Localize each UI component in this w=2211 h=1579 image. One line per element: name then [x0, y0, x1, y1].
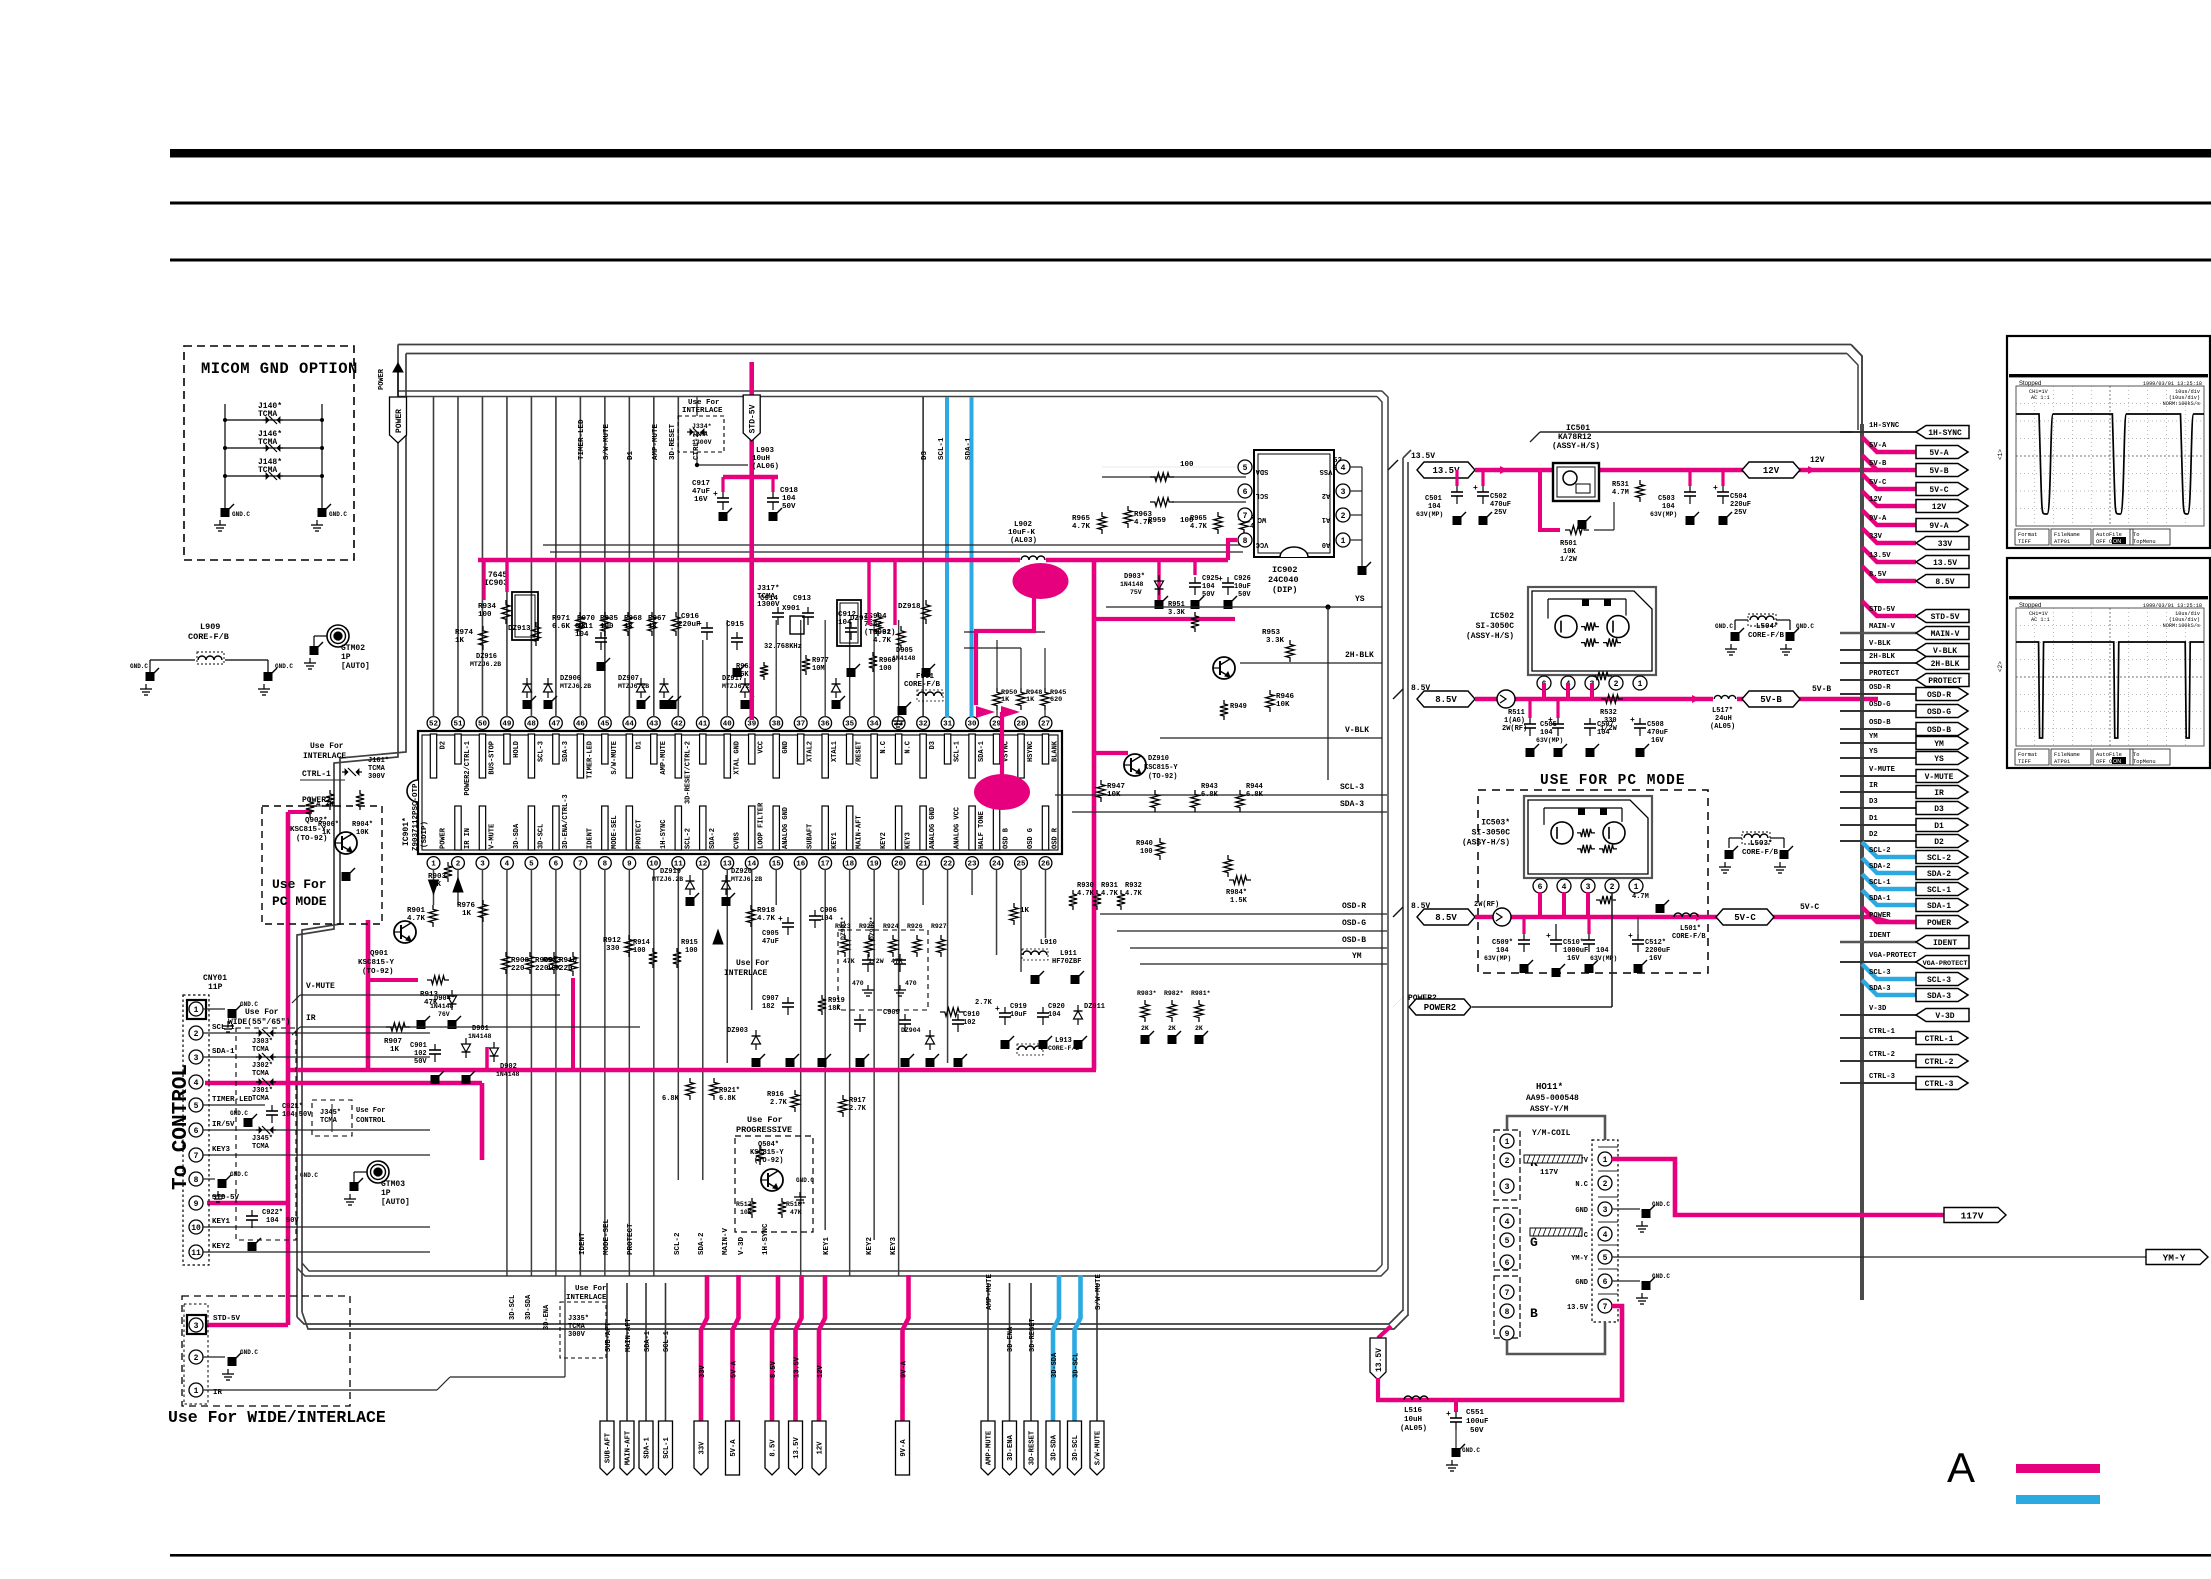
svg-text:PROGRESSIVE: PROGRESSIVE: [736, 1125, 792, 1135]
svg-text:L517*: L517*: [1712, 707, 1733, 715]
svg-text:TopMenu: TopMenu: [2133, 539, 2156, 545]
svg-text:CTRL-1: CTRL-1: [1925, 1035, 1954, 1044]
svg-text:TCMA: TCMA: [258, 410, 277, 419]
svg-text:TIMER-LED: TIMER-LED: [586, 741, 594, 779]
svg-text:C926: C926: [1234, 575, 1251, 583]
svg-text:PROTECT: PROTECT: [635, 820, 643, 849]
svg-text:YS: YS: [1934, 755, 1944, 764]
svg-text:YS: YS: [1355, 595, 1365, 604]
svg-text:2H-BLK: 2H-BLK: [1931, 660, 1960, 669]
svg-text:C901: C901: [410, 1042, 427, 1050]
svg-text:100: 100: [478, 611, 492, 619]
svg-text:GND.C: GND.C: [230, 1110, 248, 1117]
svg-text:R949: R949: [1230, 703, 1247, 711]
svg-text:WIDE(55"/65"): WIDE(55"/65"): [228, 1018, 290, 1027]
svg-text:R940: R940: [1136, 840, 1153, 848]
svg-text:C510*: C510*: [1563, 939, 1584, 947]
svg-text:<2>: <2>: [1997, 661, 2004, 672]
svg-text:KSC815-Y: KSC815-Y: [358, 959, 395, 967]
svg-text:KEY1: KEY1: [831, 832, 839, 849]
svg-text:AC 1:1: AC 1:1: [2031, 617, 2050, 623]
svg-text:GND.C: GND.C: [240, 1001, 258, 1008]
svg-text:5: 5: [1603, 1254, 1608, 1263]
svg-text:R944: R944: [1246, 783, 1263, 791]
svg-text:1P: 1P: [381, 1189, 391, 1198]
svg-text:(ASSY-H/S): (ASSY-H/S): [1462, 839, 1510, 848]
svg-text:R982*: R982*: [1164, 990, 1184, 997]
svg-text:50V: 50V: [1470, 1427, 1484, 1435]
svg-text:104: 104: [1596, 947, 1609, 955]
svg-text:6.8K: 6.8K: [1201, 791, 1219, 799]
svg-text:Format: Format: [2018, 532, 2037, 538]
svg-text:4: 4: [1562, 883, 1567, 892]
svg-text:26: 26: [1041, 861, 1051, 869]
svg-text:R910: R910: [559, 957, 578, 965]
svg-text:10uF: 10uF: [1010, 1011, 1027, 1019]
svg-text:6: 6: [554, 861, 559, 869]
svg-text:50V: 50V: [1202, 591, 1215, 599]
svg-text:R974: R974: [455, 629, 474, 637]
svg-text:SCL-3: SCL-3: [1927, 976, 1951, 985]
svg-text:5V-B: 5V-B: [1812, 685, 1831, 694]
svg-text:24C040: 24C040: [1268, 575, 1299, 585]
svg-text:R901: R901: [407, 907, 426, 915]
svg-text:SCL-3: SCL-3: [537, 741, 545, 762]
svg-text:47: 47: [551, 721, 560, 729]
svg-text:CONTROL: CONTROL: [356, 1117, 385, 1125]
svg-text:104: 104: [1597, 729, 1610, 737]
svg-text:ANALOG GND: ANALOG GND: [929, 807, 937, 849]
svg-text:4.7K: 4.7K: [1101, 890, 1119, 898]
svg-text:1N4148: 1N4148: [1120, 581, 1144, 588]
svg-text:117V: 117V: [1540, 1169, 1559, 1177]
svg-text:32: 32: [919, 721, 929, 729]
svg-text:R968: R968: [624, 615, 643, 623]
svg-text:25V: 25V: [1734, 509, 1747, 517]
svg-text:(AL05): (AL05): [1400, 1425, 1427, 1433]
svg-text:7642: 7642: [864, 621, 883, 629]
svg-text:DZ906: DZ906: [560, 675, 581, 683]
svg-text:6.8K: 6.8K: [1246, 791, 1264, 799]
svg-text:R501: R501: [1560, 540, 1577, 548]
svg-text:<1>: <1>: [1997, 449, 2004, 460]
svg-text:220uF: 220uF: [1730, 501, 1751, 509]
svg-text:1K: 1K: [462, 910, 472, 918]
svg-text:IR: IR: [1869, 782, 1878, 790]
svg-text:104: 104: [575, 631, 589, 639]
svg-text:IDENT: IDENT: [586, 828, 594, 849]
svg-text:KEY3: KEY3: [890, 1236, 898, 1255]
svg-text:L909: L909: [200, 622, 220, 632]
svg-text:SDA-1: SDA-1: [978, 741, 986, 762]
svg-text:3D-SCL: 3D-SCL: [1073, 1353, 1081, 1378]
svg-text:Use For: Use For: [356, 1107, 385, 1115]
svg-text:3D-ENA: 3D-ENA: [1007, 1326, 1015, 1352]
svg-text:7: 7: [1603, 1303, 1608, 1312]
svg-text:ATP01: ATP01: [2054, 759, 2070, 765]
svg-text:L501*: L501*: [1680, 925, 1701, 933]
svg-text:31: 31: [943, 721, 953, 729]
svg-text:12V: 12V: [1932, 503, 1947, 512]
svg-text:J317*: J317*: [757, 585, 780, 593]
svg-text:75V: 75V: [1130, 589, 1142, 596]
svg-text:8.5V: 8.5V: [1935, 578, 1954, 587]
svg-text:47uF: 47uF: [762, 938, 779, 946]
svg-text:SI-3050C: SI-3050C: [1476, 622, 1515, 631]
svg-text:3: 3: [1505, 1183, 1510, 1192]
svg-text:SUBAFT: SUBAFT: [807, 824, 815, 849]
svg-text:1K: 1K: [648, 623, 658, 631]
svg-text:INTERLACE: INTERLACE: [682, 407, 723, 415]
svg-text:Use For: Use For: [688, 399, 720, 407]
svg-text:4.7K: 4.7K: [1134, 519, 1153, 527]
svg-text:Stopped: Stopped: [2019, 381, 2041, 387]
svg-text:100: 100: [1140, 848, 1153, 856]
svg-text:43: 43: [649, 721, 659, 729]
svg-text:8: 8: [1505, 1308, 1510, 1317]
svg-text:4: 4: [194, 1079, 199, 1088]
svg-text:HSYNC: HSYNC: [1027, 741, 1035, 762]
svg-text:R965: R965: [1190, 515, 1207, 523]
svg-text:25: 25: [1017, 861, 1027, 869]
svg-text:25V: 25V: [1494, 509, 1507, 517]
svg-text:L902: L902: [1014, 521, 1033, 529]
svg-text:L911: L911: [1060, 950, 1077, 958]
svg-text:STD-5V: STD-5V: [212, 1194, 240, 1202]
svg-text:3: 3: [194, 1054, 199, 1063]
svg-text:POWER: POWER: [395, 409, 404, 433]
svg-text:R915: R915: [681, 939, 698, 947]
svg-text:C917: C917: [692, 480, 710, 488]
svg-text:DZ903: DZ903: [727, 1027, 748, 1035]
svg-text:OSD-R: OSD-R: [1927, 691, 1951, 700]
svg-text:+: +: [778, 915, 783, 924]
svg-text:VCC: VCC: [758, 741, 766, 754]
svg-text:(SDIP): (SDIP): [421, 821, 429, 848]
svg-text:OSD-B: OSD-B: [1342, 936, 1366, 945]
svg-text:(ASSY-H/S): (ASSY-H/S): [1552, 442, 1600, 451]
svg-text:HOLD: HOLD: [513, 741, 521, 758]
svg-text:28: 28: [1017, 721, 1027, 729]
svg-text:1: 1: [194, 1387, 199, 1396]
svg-text:47K: 47K: [790, 1209, 802, 1216]
svg-text:C925: C925: [1202, 575, 1219, 583]
svg-text:21: 21: [919, 861, 929, 869]
svg-text:104: 104: [1048, 1011, 1061, 1019]
svg-text:KEY1: KEY1: [212, 1218, 231, 1226]
svg-text:2.7K: 2.7K: [849, 1105, 867, 1113]
svg-text:2: 2: [456, 861, 461, 869]
svg-text:10uF-K: 10uF-K: [1008, 529, 1036, 537]
svg-text:5V-B: 5V-B: [1869, 460, 1887, 468]
svg-text:SCL-3: SCL-3: [1340, 783, 1364, 792]
svg-text:GND.C: GND.C: [275, 663, 293, 670]
svg-text:1: 1: [1603, 1156, 1608, 1165]
svg-text:33V: 33V: [699, 1365, 707, 1378]
svg-text:3D-SCL: 3D-SCL: [509, 1295, 517, 1320]
svg-text:R935: R935: [600, 615, 619, 623]
svg-text:MODE-SEL: MODE-SEL: [611, 815, 619, 849]
svg-text:F901: F901: [916, 673, 935, 681]
svg-text:5V-A: 5V-A: [1929, 449, 1948, 458]
svg-text:+: +: [1548, 716, 1553, 725]
svg-text:104: 104: [782, 495, 796, 503]
svg-text:3.3K: 3.3K: [1266, 637, 1285, 645]
svg-text:19: 19: [870, 861, 880, 869]
svg-text:R951: R951: [1168, 601, 1185, 609]
svg-text:41: 41: [698, 721, 708, 729]
svg-text:R919: R919: [828, 997, 845, 1005]
svg-text:Use For: Use For: [575, 1285, 607, 1293]
svg-text:D902: D902: [500, 1063, 517, 1071]
svg-text:102: 102: [963, 1019, 976, 1027]
svg-text:ATP01: ATP01: [2054, 539, 2070, 545]
svg-text:5V-A: 5V-A: [731, 1360, 739, 1378]
svg-text:R934: R934: [478, 603, 497, 611]
svg-text:L516: L516: [1404, 1407, 1423, 1415]
svg-text:TCMA: TCMA: [692, 431, 708, 438]
svg-text:SCL-1: SCL-1: [663, 1437, 671, 1459]
svg-text:9V-A: 9V-A: [900, 1439, 908, 1457]
svg-text:9: 9: [194, 1200, 199, 1209]
svg-text:7: 7: [578, 861, 583, 869]
svg-text:DZ901*: DZ901*: [840, 916, 847, 940]
svg-text:2: 2: [194, 1354, 199, 1363]
svg-text:104: 104: [1202, 583, 1215, 591]
svg-text:2W(RF): 2W(RF): [1502, 725, 1527, 733]
svg-text:15: 15: [772, 861, 782, 869]
svg-text:KA78R12: KA78R12: [1558, 433, 1592, 442]
svg-text:IR: IR: [1934, 789, 1944, 798]
svg-text:66K: 66K: [736, 671, 749, 679]
svg-text:C907: C907: [762, 995, 779, 1003]
svg-text:104: 104: [266, 1217, 279, 1225]
svg-text:XTAL GND: XTAL GND: [733, 741, 741, 775]
svg-text:PROTECT: PROTECT: [627, 1223, 635, 1255]
svg-text:R531: R531: [1612, 481, 1629, 489]
svg-text:OSD-G: OSD-G: [1869, 701, 1891, 709]
svg-text:SCL-1: SCL-1: [938, 437, 946, 460]
svg-text:SDA-1: SDA-1: [1869, 895, 1891, 903]
svg-text:R518*: R518*: [786, 1201, 806, 1208]
svg-text:IC901*: IC901*: [402, 817, 411, 846]
svg-text:OSD R: OSD R: [1052, 827, 1060, 849]
svg-text:SCL-1: SCL-1: [663, 1331, 671, 1352]
svg-text:OSD-B: OSD-B: [1927, 726, 1951, 735]
svg-text:1/2W: 1/2W: [1560, 556, 1578, 564]
svg-text:17: 17: [821, 861, 830, 869]
svg-text:33V: 33V: [699, 1441, 707, 1455]
svg-text:C913: C913: [793, 595, 812, 603]
svg-text:51: 51: [453, 721, 463, 729]
svg-text:ANALOG GND: ANALOG GND: [782, 807, 790, 849]
svg-text:30: 30: [968, 721, 978, 729]
svg-text:R927: R927: [931, 923, 947, 930]
svg-text:2: 2: [1610, 883, 1615, 892]
svg-text:N.C: N.C: [905, 741, 913, 754]
svg-text:V-MUTE: V-MUTE: [1869, 766, 1896, 774]
svg-text:76V: 76V: [438, 1011, 450, 1018]
svg-text:SCL-1: SCL-1: [954, 741, 962, 762]
svg-text:7: 7: [1243, 512, 1248, 521]
svg-text:IR IN: IR IN: [464, 828, 472, 849]
svg-text:R967: R967: [648, 615, 666, 623]
svg-text:POWER: POWER: [1927, 919, 1951, 928]
svg-text:DZ916: DZ916: [476, 653, 497, 661]
svg-text:(ASSY-H/S): (ASSY-H/S): [1466, 632, 1514, 641]
svg-text:IC502: IC502: [1490, 612, 1514, 621]
svg-text:1000uF: 1000uF: [1563, 947, 1588, 955]
svg-text:4.7K: 4.7K: [1125, 890, 1143, 898]
svg-text:C922*: C922*: [262, 1209, 283, 1217]
svg-text:MAIN-V: MAIN-V: [1869, 623, 1896, 631]
svg-text:2H-BLK: 2H-BLK: [1345, 651, 1374, 660]
svg-text:1(AG): 1(AG): [1504, 717, 1525, 725]
svg-text:MTZJ6.2B: MTZJ6.2B: [618, 683, 649, 690]
svg-text:104: 104: [820, 915, 833, 923]
svg-text:SUB-AFT: SUB-AFT: [605, 1323, 613, 1352]
svg-text:(TO-92): (TO-92): [1148, 773, 1177, 781]
svg-text:YM: YM: [1352, 952, 1362, 961]
svg-text:32.768KHz: 32.768KHz: [764, 643, 802, 651]
svg-text:C911: C911: [575, 623, 594, 631]
svg-text:2.7K: 2.7K: [770, 1099, 788, 1107]
svg-text:TCMA: TCMA: [368, 765, 386, 773]
svg-text:DZ919: DZ919: [660, 868, 681, 876]
svg-text:3D-SDA: 3D-SDA: [525, 1294, 533, 1320]
svg-text:SDA-3: SDA-3: [1869, 985, 1891, 993]
svg-text:Use For: Use For: [272, 877, 327, 892]
svg-text:IDENT: IDENT: [1933, 939, 1957, 948]
svg-text:3D-SDA: 3D-SDA: [1051, 1434, 1059, 1461]
svg-text:V-MUTE: V-MUTE: [306, 982, 335, 991]
svg-text:5: 5: [1243, 464, 1248, 473]
svg-text:12V: 12V: [817, 1441, 825, 1455]
svg-text:FileName: FileName: [2054, 532, 2080, 538]
svg-text:LOOP FILTER: LOOP FILTER: [758, 802, 766, 849]
svg-text:1K: 1K: [432, 881, 442, 889]
svg-text:GND.C: GND.C: [130, 663, 148, 670]
svg-text:63V(MP): 63V(MP): [1650, 511, 1677, 518]
svg-text:2: 2: [1341, 512, 1346, 521]
svg-text:TCMA: TCMA: [258, 438, 277, 447]
svg-text:NORM:100kS/s: NORM:100kS/s: [2163, 401, 2200, 407]
svg-text:182: 182: [762, 1003, 775, 1011]
svg-text:R532: R532: [1600, 709, 1617, 717]
svg-text:CTRL-3: CTRL-3: [1869, 1073, 1895, 1081]
svg-text:AMP-MUTE: AMP-MUTE: [652, 423, 660, 460]
svg-text:MODE-SEL: MODE-SEL: [603, 1218, 611, 1255]
svg-text:4: 4: [1341, 464, 1346, 473]
svg-text:C906: C906: [820, 907, 837, 915]
svg-text:1K: 1K: [1026, 696, 1035, 704]
svg-text:MTZJ6.2B: MTZJ6.2B: [560, 683, 591, 690]
svg-text:3D-RESET: 3D-RESET: [669, 423, 677, 460]
svg-text:TIMER-LED: TIMER-LED: [578, 419, 586, 460]
svg-text:PC MODE: PC MODE: [272, 894, 327, 909]
svg-text:1K: 1K: [322, 829, 331, 837]
svg-text:5V-A: 5V-A: [1869, 442, 1887, 450]
svg-text:1: 1: [194, 1006, 199, 1015]
svg-text:2K: 2K: [1168, 1025, 1176, 1032]
svg-text:R517*: R517*: [736, 1201, 756, 1208]
svg-text:[AUTO]: [AUTO]: [341, 662, 370, 671]
svg-text:GND.C: GND.C: [329, 511, 347, 518]
svg-text:VCC: VCC: [1256, 540, 1269, 548]
svg-text:(AL06): (AL06): [752, 463, 779, 471]
svg-text:330: 330: [606, 945, 620, 953]
svg-text:13.5V: 13.5V: [1567, 1304, 1589, 1312]
svg-text:L504*: L504*: [1756, 623, 1779, 631]
svg-text:8.5V: 8.5V: [770, 1360, 778, 1378]
svg-text:3: 3: [480, 861, 485, 869]
svg-text:MAIN-V: MAIN-V: [1931, 630, 1960, 639]
svg-text:SCL: SCL: [1256, 491, 1269, 499]
svg-text:C918: C918: [780, 487, 799, 495]
svg-text:3D-SCL: 3D-SCL: [1072, 1435, 1080, 1461]
svg-text:SCL-2: SCL-2: [674, 1232, 682, 1255]
svg-text:1999/03/01 13:25:18: 1999/03/01 13:25:18: [2143, 381, 2202, 387]
svg-text:9V-A: 9V-A: [901, 1360, 909, 1378]
svg-text:C905: C905: [762, 930, 779, 938]
svg-text:1H-SYNC: 1H-SYNC: [1869, 422, 1900, 430]
svg-text:63V(MP): 63V(MP): [1416, 511, 1443, 518]
svg-text:1300V: 1300V: [757, 601, 780, 609]
svg-text:CNY01: CNY01: [203, 974, 227, 983]
svg-text:2200uF: 2200uF: [1645, 947, 1670, 955]
svg-text:1K: 1K: [390, 1046, 400, 1054]
svg-text:1: 1: [1634, 883, 1639, 892]
svg-text:10uH: 10uH: [752, 455, 770, 463]
svg-text:PROTECT: PROTECT: [1869, 670, 1900, 678]
svg-text:DZ920: DZ920: [731, 868, 752, 876]
svg-text:104: 104: [1662, 503, 1675, 511]
svg-text:D3: D3: [1934, 805, 1944, 814]
svg-text:MAIN-AFT: MAIN-AFT: [625, 1430, 633, 1465]
svg-text:L903: L903: [756, 447, 775, 455]
svg-text:3: 3: [1341, 488, 1346, 497]
svg-text:6.8K: 6.8K: [662, 1095, 680, 1103]
svg-text:ON: ON: [2113, 759, 2121, 765]
svg-text:300V: 300V: [368, 773, 386, 781]
svg-text:R926: R926: [907, 923, 923, 930]
svg-text:620: 620: [1050, 696, 1062, 704]
svg-text:B: B: [1530, 1306, 1538, 1321]
svg-text:A: A: [1947, 1444, 1975, 1491]
svg-text:SDA-1: SDA-1: [644, 1331, 652, 1352]
svg-text:ANALOG VCC: ANALOG VCC: [954, 807, 962, 849]
svg-text:C503: C503: [1658, 495, 1675, 503]
svg-text:3: 3: [1586, 883, 1591, 892]
svg-text:12: 12: [698, 861, 708, 869]
svg-text:CORE-F/B: CORE-F/B: [1672, 933, 1706, 941]
svg-text:R907: R907: [384, 1038, 402, 1046]
svg-text:D901: D901: [472, 1025, 489, 1033]
svg-text:SDA-3: SDA-3: [1340, 800, 1364, 809]
svg-text:SCL-1: SCL-1: [1869, 879, 1891, 887]
svg-text:C921*: C921*: [282, 1103, 303, 1111]
svg-text:1: 1: [1341, 537, 1346, 546]
svg-text:VSS: VSS: [1320, 467, 1333, 475]
svg-text:3.3K: 3.3K: [1168, 609, 1186, 617]
svg-text:R930: R930: [1077, 882, 1094, 890]
svg-text:XTAL1: XTAL1: [831, 741, 839, 762]
svg-text:C507: C507: [1597, 721, 1614, 729]
svg-text:10K: 10K: [740, 1209, 752, 1216]
svg-text:TCMA: TCMA: [252, 1046, 270, 1054]
svg-text:MAIN-AFT: MAIN-AFT: [625, 1318, 633, 1352]
svg-text:4.7K: 4.7K: [316, 801, 335, 809]
